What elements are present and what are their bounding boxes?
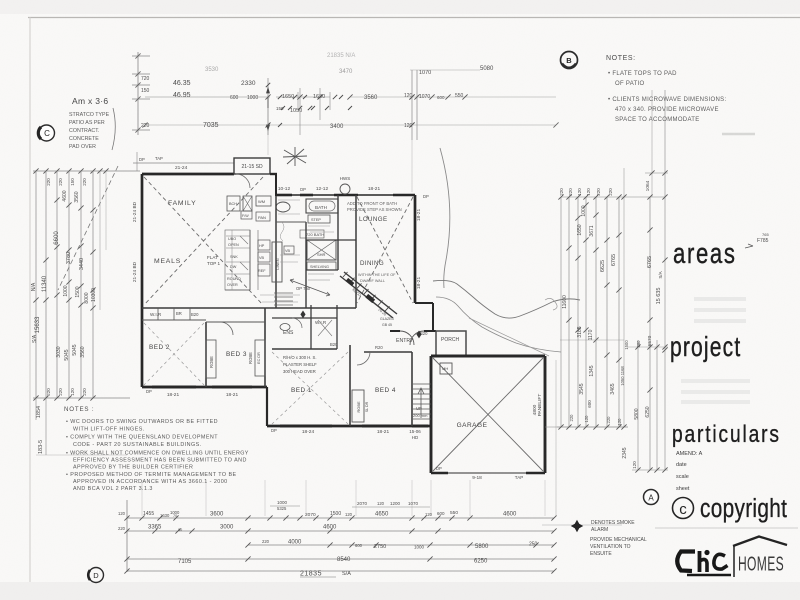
- garage walls: [431, 355, 545, 358]
- circled C: [39, 125, 55, 141]
- top wall wet area: [276, 194, 415, 196]
- shelving: [307, 262, 336, 270]
- right dim cross lines: [560, 339, 624, 341]
- bottom dim row 2: [127, 530, 554, 532]
- entry step walls: [415, 302, 433, 304]
- ens + wir bed1: [272, 317, 337, 319]
- hall wall y307: [142, 307, 356, 309]
- patio top dashed line: [133, 162, 234, 164]
- bottom dim row 4: [127, 558, 554, 560]
- patio dashed diagonal: [58, 166, 118, 290]
- top dim ticks: [265, 94, 270, 99]
- site line 4: [469, 318, 549, 356]
- site curve 1: [440, 148, 450, 288]
- right dim verticals upper: [560, 197, 562, 427]
- bottom dim row 1: [127, 517, 554, 519]
- bed2 ceiling X: [144, 323, 204, 385]
- kitchen bench: [249, 230, 251, 290]
- wet core extra scribbles: [278, 199, 300, 201]
- wet core walls: [275, 196, 277, 308]
- family/meals ceiling X dashed: [144, 177, 263, 305]
- scan bottom edge: [0, 582, 800, 600]
- shower crossed: [307, 240, 336, 260]
- left dim vertical lines: [35, 171, 37, 398]
- faded project content: [681, 379, 750, 383]
- linen: [272, 242, 282, 282]
- bottom walls bed2/bed3: [141, 174, 144, 387]
- right wall: [414, 195, 417, 303]
- circled D: [89, 568, 104, 583]
- MH box: [440, 363, 452, 374]
- top dim lines: [145, 96, 270, 98]
- right dim intermediate ticks: [566, 245, 571, 250]
- bed1 robe wall: [349, 345, 351, 426]
- copyright: [673, 498, 694, 519]
- garage ceiling X: [433, 358, 543, 471]
- circled A: [644, 490, 659, 505]
- legend divider line: [542, 524, 622, 526]
- wc oval: [276, 202, 290, 212]
- bed4 top wall + door: [364, 351, 412, 353]
- bed1 diagonals: [272, 352, 348, 424]
- left dim intermediate ticks: [54, 197, 59, 202]
- left dim bottom ticks: [33, 397, 130, 399]
- smoke alarm symbol: [572, 521, 583, 532]
- bed3 top door arc: [220, 322, 233, 335]
- laundry door arc: [236, 174, 250, 188]
- logo CHiC: [677, 552, 695, 572]
- logo underline: [687, 574, 731, 577]
- outer wall: top family: [142, 173, 234, 176]
- bed3 right wall: [264, 308, 266, 387]
- scan top edge: [0, 0, 800, 14]
- laundry door box 21-15 SD: [234, 158, 270, 174]
- faded areas content: [694, 297, 746, 301]
- logo divider + roof: [733, 545, 735, 577]
- laundry fixtures: [227, 196, 240, 211]
- connect verticals from plan: [141, 480, 143, 516]
- bottom dim row 5: [127, 570, 554, 572]
- hall arrows: [290, 279, 330, 296]
- porch: [436, 331, 466, 356]
- entry front wall: [390, 330, 400, 332]
- bed2/bed3 divider: [205, 322, 207, 387]
- bottom dim verticals: [126, 500, 128, 572]
- bottom wall bed1/bed4: [267, 425, 431, 428]
- site curve 3: [436, 297, 561, 352]
- step wall down to bed1: [266, 387, 268, 426]
- garage right dim connector: [555, 360, 557, 516]
- VB small: [284, 246, 294, 254]
- top dimension column: [137, 52, 139, 135]
- scribble: [545, 298, 557, 310]
- badge B: [561, 52, 578, 69]
- corridor steps hatch: [274, 292, 293, 294]
- bath tub: [306, 199, 338, 213]
- stairs: [413, 383, 431, 385]
- fan star: [283, 147, 307, 166]
- step box: [308, 215, 330, 223]
- robe row bed2: [142, 319, 206, 321]
- bottom dim row small top: [270, 505, 300, 507]
- hall diagonal glazed wall: [340, 272, 397, 318]
- smoke diamonds in plan: [301, 311, 305, 318]
- left dim header line: [33, 170, 140, 172]
- scan noise overlay: [0, 0, 1, 1]
- bed4 right wall: [411, 352, 413, 426]
- bottom dim row 3: [248, 544, 554, 546]
- lounge/dining ceiling X dashed: [357, 197, 413, 303]
- kitchen extra lines: [226, 235, 250, 237]
- entry door arcs: [400, 331, 414, 345]
- sheet left border: [29, 17, 31, 582]
- right dim top ticks: [561, 196, 665, 198]
- wall step to wet area: [275, 174, 277, 196]
- site curve 2: [433, 280, 580, 318]
